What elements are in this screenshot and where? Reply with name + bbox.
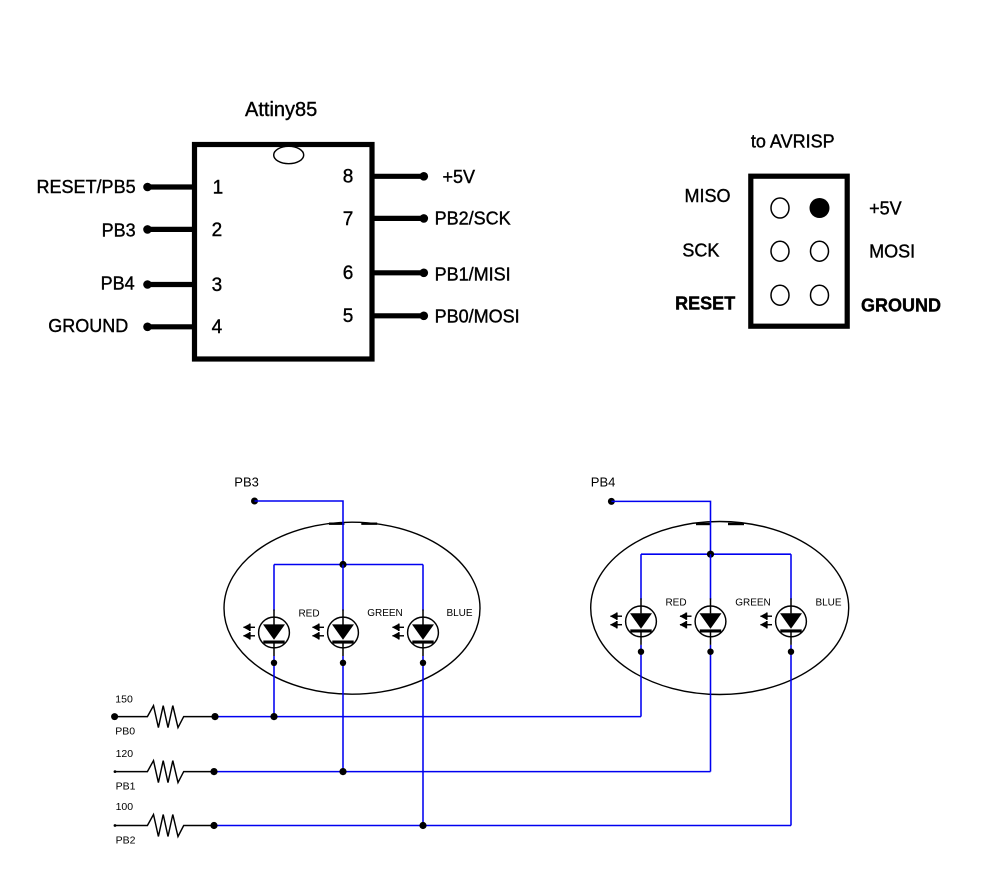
svg-text:MISO: MISO (684, 186, 730, 206)
pin 4 label GROUND (48, 316, 128, 336)
wire module 2 blue column (790, 554, 792, 825)
svg-text:3: 3 (212, 275, 223, 296)
LED module 1 enclosure ellipse (224, 522, 480, 694)
pin 4 lead (143, 323, 192, 332)
node PB4 label (591, 474, 616, 489)
junction module 1 bus (339, 561, 346, 568)
svg-text:6: 6 (343, 263, 354, 284)
resistor R2 120 (114, 761, 215, 783)
wire row PB1 (214, 771, 711, 773)
pin number 7 (343, 209, 354, 230)
LED D1 red module 1 (243, 610, 289, 667)
svg-text:GREEN: GREEN (735, 598, 771, 609)
wire PB4 to LED module 2 (611, 501, 710, 554)
pin 7 label PB2/SCK (435, 209, 511, 229)
J1 label MOSI (869, 242, 915, 262)
pin 6 lead (374, 269, 428, 278)
svg-text:BLUE: BLUE (446, 608, 472, 619)
pin 1 label RESET/PB5 (37, 177, 136, 197)
LED D4 label RED (665, 598, 686, 609)
wire module 2 green column (710, 554, 712, 771)
svg-text:RED: RED (298, 609, 319, 620)
wire anode bus module 2 (641, 553, 791, 555)
pin 3 lead (143, 280, 192, 289)
J1 label GROUND (861, 296, 941, 316)
wire module 1 blue column (422, 565, 424, 826)
pin number 5 (343, 306, 354, 327)
resistor R2 value label 120 (116, 748, 134, 760)
svg-text:PB4: PB4 (591, 474, 616, 489)
node PB3 label (234, 474, 259, 489)
svg-text:+5V: +5V (443, 167, 476, 187)
resistor R1 150 (111, 706, 215, 728)
junction module 1 blue to row PB2 (419, 822, 426, 829)
pin 3 label PB4 (101, 274, 135, 294)
wire module 1 red column (273, 565, 275, 717)
svg-text:PB0/MOSI: PB0/MOSI (435, 306, 520, 326)
resistor R3 100 (114, 815, 215, 837)
J1 label RESET (675, 294, 735, 314)
LED D4 red module 2 (610, 598, 656, 655)
J1 pin MOSI circle (811, 241, 829, 261)
J1 pin GROUND circle (811, 285, 829, 305)
svg-text:PB3: PB3 (102, 220, 136, 240)
pin number 4 (212, 317, 223, 338)
svg-text:120: 120 (116, 748, 134, 760)
pin number 2 (212, 220, 223, 241)
pin number 3 (212, 275, 223, 296)
node PB3 terminal dot (251, 498, 258, 505)
connector J1 title to AVRISP (751, 132, 835, 152)
svg-text:GREEN: GREEN (367, 608, 403, 619)
svg-text:5: 5 (343, 306, 354, 327)
LED D2 label GREEN (367, 608, 403, 619)
junction R1 output (211, 713, 218, 720)
J1 label MISO (684, 186, 730, 206)
svg-text:150: 150 (115, 694, 133, 706)
junction module 1 green to row PB1 (339, 768, 346, 775)
LED D5 green module 2 (680, 598, 726, 655)
svg-text:4: 4 (212, 317, 223, 338)
svg-text:SCK: SCK (682, 241, 719, 261)
pin 8 lead (374, 172, 428, 181)
J1 pin +5V filled circle (810, 198, 830, 218)
J1 pin MISO circle (771, 198, 789, 218)
resistor R3 value label 100 (116, 801, 134, 813)
pin 5 label PB0/MOSI (435, 306, 520, 326)
svg-text:RED: RED (665, 598, 686, 609)
svg-text:to AVRISP: to AVRISP (751, 132, 835, 152)
svg-text:PB1: PB1 (116, 781, 136, 793)
svg-text:7: 7 (343, 209, 354, 230)
svg-text:PB2: PB2 (116, 835, 136, 847)
LED D5 label GREEN (735, 598, 771, 609)
pin 5 lead (374, 312, 428, 321)
LED D1 label RED (298, 609, 319, 620)
svg-text:BLUE: BLUE (815, 598, 841, 609)
svg-text:8: 8 (343, 167, 354, 188)
IC U1 Attiny85 title (245, 99, 317, 121)
LED D3 blue module 1 (392, 610, 438, 667)
LED D6 label BLUE (815, 598, 841, 609)
pin number 1 (213, 177, 224, 198)
junction R3 output (210, 822, 217, 829)
IC U1 body (195, 145, 373, 360)
wire row PB0 (215, 716, 641, 718)
wire row PB2 (214, 825, 791, 827)
svg-text:GROUND: GROUND (48, 316, 128, 336)
pin 1 lead (143, 183, 192, 192)
junction module 1 red to row PB0 (270, 713, 277, 720)
junction module 2 bus (707, 551, 714, 558)
LED D2 green module 1 (312, 610, 358, 667)
connector J1 body (751, 176, 847, 326)
pin 7 lead (374, 214, 428, 223)
wire PB3 to LED module 1 (255, 501, 344, 565)
resistor R3 node label PB2 (116, 835, 136, 847)
svg-text:+5V: +5V (869, 198, 902, 218)
pin 2 label PB3 (102, 220, 136, 240)
junction R2 output (210, 768, 217, 775)
J1 pin SCK circle (771, 241, 789, 261)
node PB4 terminal dot (608, 498, 615, 505)
svg-text:GROUND: GROUND (861, 296, 941, 316)
svg-text:PB1/MISI: PB1/MISI (435, 264, 511, 284)
J1 label +5V (869, 198, 902, 218)
svg-text:PB0: PB0 (115, 726, 135, 738)
pin number 8 (343, 167, 354, 188)
resistor R2 node label PB1 (116, 781, 136, 793)
svg-text:RESET: RESET (675, 294, 735, 314)
pin 8 label +5V (443, 167, 476, 187)
J1 pin RESET circle (771, 285, 789, 305)
svg-text:PB4: PB4 (101, 274, 135, 294)
J1 label SCK (682, 241, 719, 261)
svg-text:MOSI: MOSI (869, 242, 915, 262)
LED D6 blue module 2 (760, 598, 806, 655)
wire anode bus module 1 (274, 564, 423, 566)
IC U1 notch (192, 142, 375, 164)
wire module 1 green column (342, 565, 344, 772)
svg-text:PB3: PB3 (234, 474, 259, 489)
svg-text:RESET/PB5: RESET/PB5 (37, 177, 136, 197)
resistor R1 value label 150 (115, 694, 133, 706)
svg-text:1: 1 (213, 177, 224, 198)
pin 6 label PB1/MISI (435, 264, 511, 284)
wire module 2 red column (640, 554, 642, 716)
LED module 2 enclosure ellipse (591, 522, 849, 695)
resistor R1 node label PB0 (115, 726, 135, 738)
pin 2 lead (143, 225, 192, 234)
svg-text:100: 100 (116, 801, 134, 813)
pin number 6 (343, 263, 354, 284)
svg-text:2: 2 (212, 220, 223, 241)
svg-text:Attiny85: Attiny85 (245, 99, 317, 121)
LED D3 label BLUE (446, 608, 472, 619)
svg-text:PB2/SCK: PB2/SCK (435, 209, 511, 229)
